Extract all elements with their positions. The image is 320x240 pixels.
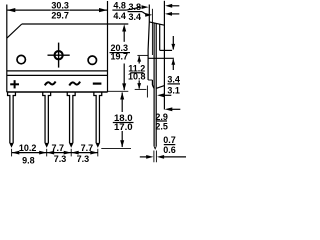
fraction bar 3.4/3.1 <box>168 83 181 84</box>
svg-text:7.3: 7.3 <box>77 154 90 164</box>
front view body left edge + extension line <box>6 5 8 93</box>
arrowhead 30.3 left <box>7 8 15 12</box>
bottom edge extension to right for 18.0/20.3 dims <box>108 90 129 92</box>
arrowhead 2.9 at face <box>165 107 173 111</box>
arrowhead 30.3 right <box>99 8 107 12</box>
arrowhead 3.8 right(pointing left) <box>165 12 172 16</box>
left face extension stub below body <box>146 86 148 98</box>
dim 18.0/17.0 down arrow shaft <box>121 131 123 147</box>
lead tip extension line <box>101 147 131 149</box>
hole centerline stub <box>137 54 148 56</box>
crosshair vertical arm <box>58 43 60 68</box>
hole lower line + extension right <box>148 57 174 59</box>
svg-text:10.2: 10.2 <box>19 143 37 153</box>
dim 4.8/4.4 right arrow shaft <box>171 5 180 7</box>
svg-text:30.3: 30.3 <box>51 1 69 11</box>
svg-text:3.8: 3.8 <box>129 2 142 12</box>
dim 20.3/19.7 down arrow shaft <box>123 64 125 91</box>
arrowhead 18.0 up <box>120 92 124 99</box>
svg-text:29.7: 29.7 <box>51 10 69 20</box>
fraction bar 11.2/10.8 <box>130 72 143 73</box>
svg-text:0.7: 0.7 <box>163 135 176 145</box>
dim 18.0/17.0 up arrow shaft <box>121 93 123 113</box>
side view bottom-left taper <box>152 85 154 88</box>
side view right face + extensions up and down <box>163 1 165 110</box>
hole upper line + extension right <box>160 49 172 51</box>
ac tilde symbol 2 <box>69 82 80 86</box>
minus polarity symbol <box>93 82 102 84</box>
dim 2.9/2.5 arrow at body face shaft <box>172 108 181 110</box>
pin 4 inner lines <box>96 143 101 148</box>
svg-text:4.4: 4.4 <box>113 11 126 21</box>
side view left face + extension up <box>148 5 149 81</box>
front view chamfer top-left <box>7 24 22 38</box>
fraction bar 0.7/0.6 <box>164 144 176 145</box>
dim 3.8/3.4 leader <box>142 12 147 15</box>
fraction bar 3.8/3.4 <box>128 11 142 12</box>
fraction bar 30.3/29.7 <box>51 10 69 11</box>
dim 0.7/0.6 left shaft <box>140 156 147 158</box>
arrowheads pitch pin3 <box>64 151 71 155</box>
svg-text:3.4: 3.4 <box>129 12 142 22</box>
mounting hole crosshair circle <box>55 51 63 59</box>
lead edge extension ticks at tip <box>154 151 157 163</box>
arrowhead 2.9 at lead <box>157 93 164 97</box>
arrowhead 4.8 right(pointing left) <box>165 4 172 8</box>
front view top edge + right extension for 20.3 dim <box>22 23 129 25</box>
dim 4.8/4.4 leader <box>127 7 141 10</box>
arrowhead 11.2 up <box>137 56 141 62</box>
fraction bar 18.0/17.0 <box>113 122 134 123</box>
svg-text:3.4: 3.4 <box>167 75 180 85</box>
arrowhead 11.2 down <box>137 83 141 89</box>
dim 20.3/19.7 up arrow shaft <box>123 28 125 42</box>
svg-text:3.1: 3.1 <box>167 85 180 95</box>
arrowhead pitch pin1 left <box>12 151 20 155</box>
bottom pin-pitch dimension line <box>12 152 98 154</box>
fraction bar 4.8/4.4 <box>112 10 126 11</box>
arrowhead 3.4/3.1 down <box>171 44 175 50</box>
pin 3 center extension tick <box>70 149 72 157</box>
fraction bar 20.3/19.7 <box>110 52 131 53</box>
pin 2 shoulder <box>43 92 51 143</box>
side view lower left face <box>151 80 153 85</box>
pin 1 inner lines <box>9 143 14 148</box>
svg-text:7.3: 7.3 <box>54 154 67 164</box>
pin 2 inner lines <box>44 143 49 148</box>
svg-text:0.6: 0.6 <box>163 145 176 155</box>
dim 3.4/3.1 up arrow shaft <box>172 59 174 70</box>
side view inner vertical (hole wall) <box>159 24 161 50</box>
groove band line 1 <box>7 70 108 72</box>
dim 30.3/29.7 line left segment <box>7 9 51 11</box>
side view left face step <box>148 79 152 81</box>
front view right edge + extension up <box>107 1 109 92</box>
svg-text:7.7: 7.7 <box>81 143 94 153</box>
groove band line 2 <box>7 74 108 76</box>
dim 11.2/10.8 up arrow shaft <box>138 56 140 63</box>
front view bottom edge <box>7 91 108 93</box>
dim 0.7/0.6 right shaft <box>163 156 186 158</box>
arrowheads pitch pin2 <box>39 151 47 155</box>
arrowhead 0.7 left(pointing right) <box>146 155 153 159</box>
side view bottom-right taper <box>156 86 164 89</box>
side view lead left line <box>153 23 155 146</box>
pin 1 (+) shoulder <box>8 92 16 143</box>
dim 30.3/29.7 line right segment <box>70 9 107 11</box>
arrowhead pitch pin4 <box>90 151 98 155</box>
pin 2 center extension tick <box>46 149 48 157</box>
pin 4 (-) shoulder <box>94 92 102 143</box>
side view lead tip taper <box>154 146 156 148</box>
dim 3.4/3.1 down arrow shaft <box>172 36 174 50</box>
pin 3 inner lines <box>69 143 74 148</box>
side view top edge (slanted) <box>149 22 164 25</box>
arrowhead 4.8 left(pointing right) <box>142 5 149 9</box>
arrowhead 0.7 right(pointing left) <box>157 155 164 159</box>
dim 11.2/10.8 down arrow shaft <box>138 80 140 88</box>
crosshair horizontal arm <box>48 54 70 56</box>
plus polarity symbol <box>10 80 19 88</box>
dim 2.9/2.5 arrow on lead shaft <box>161 94 171 96</box>
ac tilde symbol 1 <box>45 82 56 86</box>
right hole circle <box>88 56 96 64</box>
pin 1 center extension tick <box>11 149 13 157</box>
svg-text:17.0: 17.0 <box>114 122 133 133</box>
arrowhead 20.3 up <box>122 24 126 31</box>
left hole circle <box>17 55 25 63</box>
dim 3.8/3.4 right arrow shaft <box>171 13 179 15</box>
11.2 bottom extension line <box>135 88 147 90</box>
side view lead right line <box>155 23 157 146</box>
arrowhead 20.3 down <box>122 83 126 90</box>
3.8 upper-left face extension line <box>151 9 153 55</box>
pin 3 shoulder <box>67 92 75 143</box>
arrowhead 18.0 down <box>120 140 124 147</box>
arrowhead 3.8 left(pointing right) <box>145 13 152 17</box>
svg-text:4.8: 4.8 <box>113 1 126 11</box>
svg-text:9.8: 9.8 <box>22 155 35 165</box>
svg-text:7.7: 7.7 <box>51 143 64 153</box>
arrowhead 3.4/3.1 up <box>171 59 175 65</box>
fraction bar 2.9/2.5 <box>156 120 167 121</box>
pin 4 center extension tick <box>97 149 99 157</box>
svg-text:2.5: 2.5 <box>155 121 168 131</box>
